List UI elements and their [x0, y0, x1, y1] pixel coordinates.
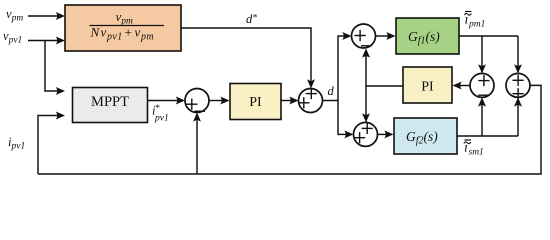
- svg-text:PI: PI: [249, 95, 262, 110]
- svg-text:pv1: pv1: [154, 114, 169, 124]
- svg-text:PI: PI: [421, 80, 434, 95]
- wire v_pm input: [28, 12, 65, 20]
- node d label: [328, 84, 335, 98]
- block feedforward divider v_pm/(N v_pv1 + v_pm): [65, 5, 181, 51]
- block PI2: [403, 67, 452, 103]
- wire drop i~_pm1 to S5: [478, 36, 486, 73]
- svg-text:pv1: pv1: [106, 32, 123, 43]
- summing node S2: [298, 88, 322, 113]
- wire v_pv1 input: [28, 37, 65, 45]
- wire S3 to Gf1: [376, 32, 396, 40]
- node i~_pm1 label: [464, 12, 485, 30]
- node d* label: [246, 12, 257, 26]
- wire PI2 output branch to S3 and S4: [362, 48, 403, 122]
- wire drop i~_pm1 to S6: [514, 36, 522, 73]
- svg-text:ı: ı: [464, 141, 468, 156]
- wire S1 to PI1: [209, 97, 230, 105]
- svg-text:+: +: [125, 25, 132, 40]
- svg-text:v: v: [101, 25, 107, 40]
- wire Gf1 output i~_pm1 bus: [459, 35, 518, 37]
- node v_pm label: [6, 7, 23, 24]
- svg-text:ı: ı: [465, 13, 469, 28]
- node v_pv1 label: [3, 29, 22, 46]
- wire S6 output feedback loop: [38, 85, 541, 174]
- svg-text:sm1: sm1: [469, 148, 484, 158]
- block Gf1(s): [396, 18, 459, 54]
- summing node S6: [506, 73, 530, 99]
- summing node S5: [470, 73, 494, 97]
- svg-text:MPPT: MPPT: [91, 94, 129, 110]
- wire PI1 to summing node S2: [281, 97, 299, 105]
- wire riser i~_sm1 to S5: [478, 97, 486, 136]
- wire d to summing node S4: [338, 130, 354, 138]
- svg-text:pm1: pm1: [468, 20, 485, 30]
- svg-text:d: d: [328, 84, 335, 98]
- wire S4 to Gf2: [378, 130, 394, 138]
- svg-text:v: v: [135, 25, 141, 40]
- wire riser i~_sm1 to S6: [514, 97, 522, 136]
- wire d to summing node S3: [338, 32, 352, 40]
- summing node S4: [354, 122, 378, 146]
- svg-text:pm: pm: [140, 32, 154, 43]
- wire MPPT output i*_pv1: [148, 97, 186, 105]
- wire i_pv1 riser into S1 minus: [193, 113, 201, 175]
- wire i_pv1 feedback to MPPT: [38, 112, 65, 175]
- wire d* from divider to summing node S2: [181, 28, 315, 89]
- wire d bus vertical: [337, 35, 339, 135]
- node i*_pv1 label: [152, 104, 169, 124]
- block Gf2(s): [394, 118, 457, 154]
- wire S5 output to PI2: [453, 82, 471, 90]
- wire Gf2 output i~_sm1 bus: [457, 135, 518, 137]
- summing node S1: [185, 89, 209, 113]
- summing node S3: [352, 24, 376, 48]
- block MPPT: [73, 88, 148, 123]
- node i_pv1 label: [8, 135, 25, 152]
- node i~_sm1 label: [464, 140, 484, 158]
- wire v_pv1 branch to MPPT: [45, 41, 65, 96]
- wire S2 output to d bus: [323, 100, 339, 102]
- svg-text:N: N: [90, 25, 101, 40]
- svg-text:*: *: [155, 104, 160, 114]
- block PI1: [230, 84, 281, 120]
